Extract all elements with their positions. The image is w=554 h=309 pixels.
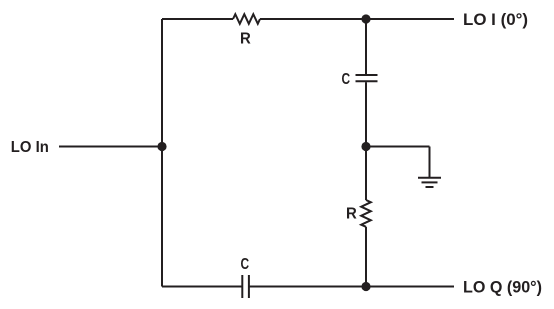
svg-text:C: C (342, 71, 351, 88)
svg-text:R: R (346, 206, 357, 223)
node: LO In junction on left rail (157, 142, 166, 151)
label LO In (11, 139, 49, 156)
wire: right rail from resistor down to bottom junction (365, 227, 367, 287)
label C (bottom capacitor) (241, 256, 250, 273)
wire: bottom horizontal segment right of C to output (249, 286, 454, 288)
wire: right rail from capacitor down to middle junction (365, 82, 367, 146)
label LO I (0°) (463, 11, 528, 29)
svg-text:C: C (241, 256, 250, 273)
svg-text:R: R (240, 31, 251, 48)
label R (vertical resistor) (346, 206, 357, 223)
svg-text:LO In: LO In (11, 139, 49, 156)
label LO Q (90°) (463, 278, 542, 296)
label C (top capacitor) (342, 71, 351, 88)
capacitor C (bottom, horizontal) (242, 275, 249, 298)
node: bottom junction (361, 282, 370, 291)
wire: left vertical rail (161, 19, 163, 287)
resistor R (right, vertical) (361, 200, 371, 227)
wire: right rail from middle junction down to resistor R (365, 147, 367, 201)
resistor R (top, horizontal) (233, 14, 260, 24)
svg-text:LO I (0°): LO I (0°) (463, 11, 528, 29)
wire: bottom horizontal segment left of C (162, 286, 242, 288)
wire: right rail from top junction down to capacitor C (365, 19, 367, 74)
ground (418, 178, 441, 187)
label R (top resistor) (240, 31, 251, 48)
node: middle junction (361, 142, 370, 151)
svg-text:LO Q (90°): LO Q (90°) (463, 278, 542, 296)
node: top junction (361, 14, 370, 23)
wire: ground branch vertical stem (429, 147, 431, 178)
capacitor C (top, vertical branch) (356, 75, 378, 81)
wire: top horizontal segment right of R to output (260, 18, 454, 20)
wire: LO In lead (59, 146, 162, 148)
wire: ground branch horizontal (366, 146, 430, 148)
wire: top horizontal segment left of R (162, 18, 233, 20)
